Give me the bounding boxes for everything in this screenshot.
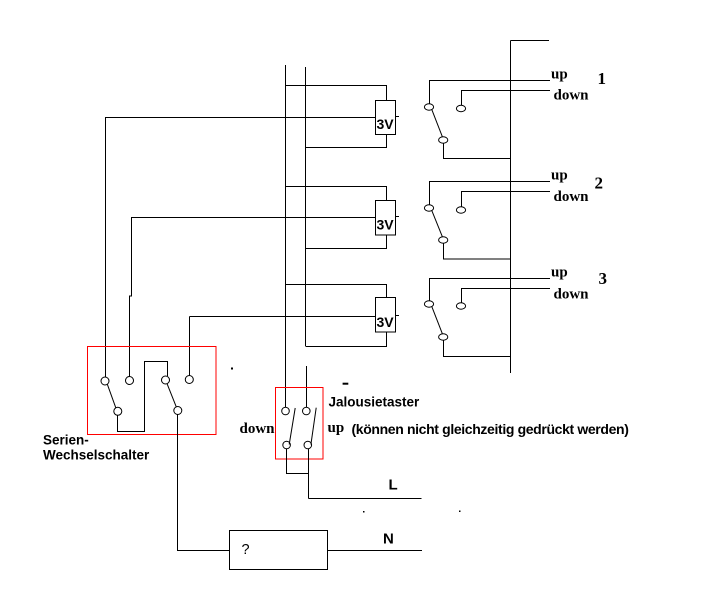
relay contact K1 lever <box>432 109 443 136</box>
wire switch S1 terminal 4 drop <box>189 317 191 376</box>
switch S1 enclosure (red) <box>88 347 217 435</box>
relay contact K3 common terminal <box>439 334 448 340</box>
relay contact K1 common terminal <box>439 137 448 143</box>
stray dot artifact C <box>459 511 461 513</box>
relay contact K1 up terminal <box>424 104 433 110</box>
wire relay contact K3 down feed <box>462 289 551 304</box>
relay contact K3 lever <box>432 306 443 333</box>
wire relay contact K2 down feed <box>462 192 551 208</box>
switch S1 bottom contact 2 <box>174 407 182 415</box>
wire battery B1 negative to right bus <box>306 135 387 148</box>
switch S1 terminal 2 contact <box>126 377 134 385</box>
svg-text:2: 2 <box>595 174 604 193</box>
wire switch S1 series link <box>118 362 168 432</box>
svg-text:down: down <box>554 189 590 205</box>
stray dot artifact B <box>363 511 365 513</box>
load box unknown <box>230 531 328 570</box>
battery B2 box <box>376 201 396 236</box>
pushbutton unit enclosure (red) <box>276 388 324 460</box>
svg-text:Serien-: Serien- <box>43 433 89 448</box>
wire relay contact K2 up feed <box>430 182 551 206</box>
stray dot artifact A <box>231 368 233 370</box>
wire switch S1 terminal 1 drop <box>105 118 107 378</box>
relay contact K3 down terminal <box>456 303 465 309</box>
svg-text:Jalousietaster: Jalousietaster <box>329 395 421 410</box>
stray dash artifact <box>343 383 349 385</box>
svg-text:3: 3 <box>599 269 608 288</box>
wire left bus vertical <box>285 65 287 408</box>
wire relay contact K3 common to rail <box>444 340 511 356</box>
svg-text:up: up <box>328 420 345 436</box>
wire battery B3 middle to switch S1 <box>190 316 376 318</box>
svg-text:up: up <box>551 265 568 281</box>
pushbutton down top contact <box>282 407 290 415</box>
svg-text:Wechselschalter: Wechselschalter <box>43 448 150 463</box>
pushbutton down actuator <box>289 408 295 445</box>
svg-text:(können nicht gleichzeitig ged: (können nicht gleichzeitig gedrückt werd… <box>352 421 629 437</box>
wire battery B1 positive to left bus <box>286 86 387 101</box>
wire relay contact K1 up feed <box>430 81 551 105</box>
svg-text:3V: 3V <box>377 314 395 330</box>
relay contact K2 common terminal <box>439 237 448 243</box>
switch S1 lever 1 <box>107 384 116 408</box>
wire battery B3 negative to right bus <box>306 332 387 347</box>
relay contact K2 down terminal <box>456 207 465 213</box>
wire battery B1 right stub <box>396 116 400 118</box>
svg-text:up: up <box>551 67 568 83</box>
battery B1 box <box>376 101 396 135</box>
pushbutton up bottom contact <box>304 441 312 449</box>
switch S1 terminal 4 contact <box>185 376 193 384</box>
wire battery B3 positive to left bus <box>286 285 387 298</box>
wire relay contact K2 common to rail <box>444 243 511 259</box>
battery B3 box <box>376 298 396 333</box>
svg-text:1: 1 <box>598 69 607 88</box>
switch S1 bottom contact 1 <box>114 407 122 415</box>
relay contact K1 down terminal <box>456 105 465 111</box>
relay contact K2 lever <box>432 210 443 236</box>
wire pushbutton up output to L <box>308 449 310 499</box>
switch S1 pole P2 contact <box>162 376 170 384</box>
wire right bus vertical lower <box>306 366 308 408</box>
wire line N <box>328 550 423 552</box>
wire right bus vertical upper <box>305 67 307 346</box>
wire battery B2 negative to right bus <box>306 235 387 249</box>
svg-text:down: down <box>554 287 590 303</box>
svg-text:up: up <box>551 168 568 184</box>
wire relay contact K3 up feed <box>430 279 551 302</box>
svg-text:down: down <box>554 88 590 104</box>
wire battery B2 right stub <box>396 216 400 218</box>
pushbutton up actuator <box>311 408 316 445</box>
wire switch S1 output to load box <box>178 415 230 551</box>
relay contact K3 up terminal <box>424 301 433 307</box>
svg-text:3V: 3V <box>377 116 395 132</box>
svg-text:3V: 3V <box>377 217 395 233</box>
wire relay contact K1 common to rail <box>444 143 511 158</box>
svg-text:L: L <box>389 477 398 494</box>
svg-text:down: down <box>240 421 276 437</box>
wire battery B2 positive to left bus <box>286 187 387 201</box>
wire top stub to common rail <box>511 40 550 42</box>
wire pushbutton down output <box>287 449 309 474</box>
relay contact K2 up terminal <box>424 205 433 211</box>
wire relay contact K1 down feed <box>462 91 551 106</box>
wire switch S1 terminal 2 drop <box>130 218 132 377</box>
pushbutton down bottom contact <box>283 441 291 449</box>
wire battery B1 middle to switch S1 <box>105 117 376 119</box>
wire line L <box>309 498 422 500</box>
switch S1 terminal 1 contact <box>101 377 109 385</box>
svg-text:?: ? <box>242 542 250 558</box>
svg-text:N: N <box>383 531 394 548</box>
wire battery B2 middle to switch S1 <box>131 217 376 219</box>
switch S1 lever 2 <box>167 384 176 407</box>
wire battery B3 right stub <box>396 315 400 317</box>
wire common rail vertical <box>510 41 512 374</box>
pushbutton up top contact <box>303 407 311 415</box>
